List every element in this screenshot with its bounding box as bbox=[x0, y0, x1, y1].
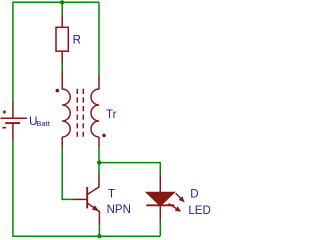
transistor T collector lead bbox=[88, 174, 99, 194]
transistor T base lead bbox=[73, 198, 86, 200]
wire LED cathode to bottom rail bbox=[159, 219, 161, 236]
svg-text:T: T bbox=[108, 189, 115, 201]
wire right branch bbox=[98, 2, 100, 74]
wire emitter to bottom rail bbox=[98, 224, 100, 236]
battery plus sign bbox=[3, 110, 7, 114]
wire left rail bbox=[12, 2, 14, 102]
svg-text:D: D bbox=[190, 189, 198, 201]
LED D cathode bar bbox=[146, 204, 174, 206]
wire collector node to LED anode bbox=[99, 163, 160, 176]
wire battery minus to bottom rail bbox=[12, 139, 14, 237]
wire primary bottom to transistor base bbox=[62, 146, 73, 199]
transistor T base bar bbox=[86, 187, 88, 208]
transistor T emitter arrow bbox=[92, 205, 99, 211]
transformer Tr secondary lead bottom bbox=[98, 137, 100, 147]
transistor T emitter lead bbox=[88, 203, 100, 225]
resistor R lead bottom bbox=[61, 51, 63, 63]
battery UBatt lead bottom bbox=[12, 124, 14, 140]
resistor R lead top bbox=[61, 14, 63, 27]
transformer Tr secondary lead top bbox=[98, 74, 100, 89]
LED D cathode lead bbox=[159, 206, 161, 219]
transformer Tr core bbox=[76, 89, 78, 137]
transformer Tr primary lead top bbox=[61, 70, 63, 90]
transformer Tr primary winding bbox=[62, 89, 70, 137]
junction node top bbox=[60, 0, 64, 4]
wire junction to resistor bbox=[61, 2, 63, 15]
battery UBatt lead top bbox=[12, 102, 14, 118]
svg-text:LED: LED bbox=[188, 205, 210, 217]
LED D light arrow 2 bbox=[169, 204, 177, 209]
junction node emitter bottom bbox=[97, 234, 101, 238]
transformer Tr primary lead bottom bbox=[61, 137, 63, 147]
LED D anode lead bbox=[159, 175, 161, 193]
wire secondary bottom to collector node bbox=[98, 146, 100, 174]
transformer Tr secondary winding bbox=[91, 89, 99, 137]
battery UBatt positive plate bbox=[1, 117, 28, 119]
wire bottom rail bbox=[13, 235, 160, 237]
wire resistor to primary bbox=[61, 63, 63, 70]
battery minus sign bbox=[2, 127, 6, 129]
svg-text:Tr: Tr bbox=[106, 109, 117, 121]
wire top rail bbox=[13, 1, 99, 3]
resistor R bbox=[56, 27, 68, 51]
svg-text:Batt: Batt bbox=[36, 119, 51, 128]
LED D triangle bbox=[146, 192, 174, 206]
transformer Tr secondary phase dot bbox=[102, 134, 106, 138]
svg-text:NPN: NPN bbox=[107, 204, 131, 216]
battery UBatt negative plate bbox=[5, 122, 20, 124]
junction node collector bbox=[97, 160, 101, 164]
transformer Tr primary phase dot bbox=[56, 89, 60, 93]
svg-text:R: R bbox=[73, 35, 81, 47]
LED D light arrow 1 bbox=[176, 193, 181, 198]
